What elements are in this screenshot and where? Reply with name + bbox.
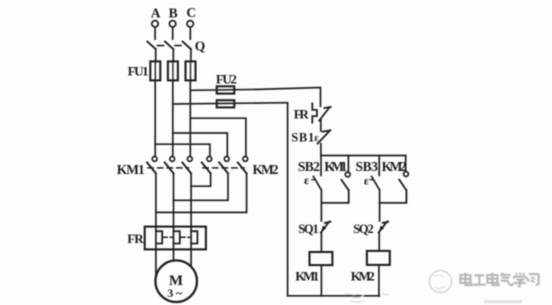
svg-text:SQ1: SQ1 (298, 222, 319, 236)
svg-text:FU1: FU1 (128, 64, 149, 79)
svg-text:SB2: SB2 (298, 159, 320, 174)
svg-text:KM1: KM1 (324, 159, 347, 174)
svg-text:SB1: SB1 (291, 130, 314, 144)
svg-text:3~: 3~ (167, 286, 183, 300)
svg-text:SB3: SB3 (356, 159, 379, 174)
svg-text:A: A (151, 5, 161, 20)
svg-text:KM1: KM1 (117, 162, 145, 177)
svg-text:B: B (169, 5, 178, 20)
svg-text:SQ2: SQ2 (353, 222, 374, 236)
svg-text:FR: FR (294, 106, 310, 121)
svg-text:KM2: KM2 (382, 159, 407, 174)
svg-text:FR: FR (127, 231, 144, 246)
svg-text:ε: ε (314, 133, 319, 144)
svg-text:KM1: KM1 (295, 269, 319, 284)
svg-text:FU2: FU2 (216, 72, 237, 87)
svg-text:Q: Q (195, 39, 206, 54)
svg-text:ε: ε (304, 173, 309, 187)
svg-text:KM2: KM2 (351, 269, 375, 284)
svg-text:C: C (186, 5, 196, 20)
svg-text:KM2: KM2 (253, 162, 279, 177)
svg-text:ε: ε (364, 173, 369, 187)
